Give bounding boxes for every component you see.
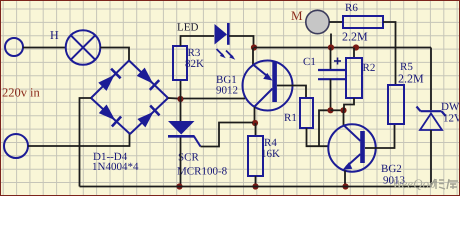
node R4 bottom on rail	[252, 183, 258, 189]
node top rail left junction	[251, 44, 257, 50]
wire BG2 collector lead	[343, 110, 345, 125]
resistor R2	[346, 58, 362, 98]
svg-text:in: in	[30, 86, 40, 100]
wire BG2 emitter down to rail	[344, 171, 346, 187]
svg-text:12V: 12V	[443, 113, 460, 125]
capacitor C1 (polarized)	[318, 58, 345, 80]
resistor R6 (horizontal)	[343, 16, 383, 28]
wire node A branch left and down	[319, 110, 331, 146]
svg-text:1N4004*4: 1N4004*4	[92, 161, 139, 173]
diode D1 (bridge arm)	[98, 69, 120, 91]
wire gate node down to R4	[255, 123, 257, 136]
wire R1 bottom to BG2 base area	[307, 128, 330, 146]
SCR MCR100-8 thyristor symbol	[168, 121, 201, 147]
svg-text:M: M	[291, 8, 303, 23]
node B	[340, 107, 346, 113]
LED arrows	[217, 49, 236, 60]
wire SCR anode	[180, 99, 182, 121]
wire T2 to bridge bottom corner	[28, 134, 130, 146]
wire M to R6	[329, 21, 343, 23]
diode D4 (bridge arm)	[137, 106, 159, 128]
svg-text:WeeQoo: WeeQoo	[392, 176, 436, 191]
wire node A to node B	[331, 109, 344, 111]
watermark WeeQoo weiku	[392, 176, 458, 191]
wire T1 to lamp H	[23, 47, 66, 49]
wire C1 bottom lead	[330, 79, 332, 110]
svg-text:MCR100-8: MCR100-8	[177, 166, 228, 178]
LED diode symbol	[215, 23, 229, 45]
wire SCR cathode down	[180, 138, 182, 187]
lamp H (circle with X)	[66, 30, 101, 65]
wire BG2 base to R5 bottom	[365, 124, 395, 148]
bottom rail wire	[80, 186, 432, 188]
svg-text:2.2M: 2.2M	[342, 30, 368, 44]
svg-text:LED: LED	[177, 22, 198, 34]
svg-text:R6: R6	[345, 2, 358, 14]
wire R6 right down to rail	[383, 22, 396, 48]
node BG2 emitter on rail	[342, 183, 348, 189]
terminal T2 (220v input bottom)	[4, 134, 28, 158]
wire R3 top to LED	[181, 36, 215, 46]
svg-text:2.2M: 2.2M	[398, 72, 424, 86]
wire top rail	[254, 47, 431, 49]
resistor R5	[388, 85, 404, 124]
wire R5 top lead	[395, 48, 397, 86]
wire bridge right corner (DC+) to node	[168, 97, 181, 100]
label 220v in	[2, 86, 40, 100]
wire DC+ node to BG1 circle (base side wire)	[183, 98, 245, 100]
node A	[327, 107, 333, 113]
wire R2 top lead	[353, 48, 355, 59]
wire BG1 collector down to gate node	[254, 107, 256, 123]
transistor BG1 (9012 PNP)	[243, 61, 293, 111]
svg-text:9012: 9012	[216, 85, 238, 97]
diode D3 (bridge arm)	[99, 105, 121, 127]
svg-text:R2: R2	[363, 62, 376, 74]
wire LED cathode to top rail node	[229, 36, 254, 48]
wire M bottom stub	[330, 34, 332, 48]
transistor BG2 (9013 NPN)	[328, 124, 375, 171]
svg-text:220v: 220v	[2, 86, 28, 100]
wire bridge left corner (DC-) down to bottom rail	[80, 98, 92, 187]
wire R2 bottom jog to node B	[344, 98, 354, 110]
svg-text:H: H	[50, 28, 59, 42]
bridge rectifier diamond wires	[91, 61, 168, 135]
node SCR cathode on bottom rail	[176, 183, 182, 189]
wire SCR gate to gate node	[201, 123, 254, 147]
node C1 top junction	[328, 44, 334, 50]
motor M (gray circle)	[306, 10, 329, 33]
svg-text:BG2: BG2	[381, 163, 402, 175]
node DC+ junction	[177, 96, 183, 102]
wire R4 bottom to rail	[255, 176, 257, 187]
terminal T1 (220v input top)	[5, 38, 23, 56]
node gate junction	[252, 120, 258, 126]
resistor R3	[173, 46, 187, 80]
svg-text:R1: R1	[284, 112, 297, 124]
resistor R4	[248, 136, 263, 176]
wire top rail corner down to zener DW	[430, 48, 432, 111]
diode D2 (bridge arm)	[137, 68, 160, 90]
svg-text:82K: 82K	[185, 58, 204, 70]
zener diode DW	[417, 107, 446, 131]
node R2 top junction	[353, 44, 359, 50]
resistor R1	[300, 98, 313, 128]
svg-text:DW: DW	[441, 101, 460, 113]
svg-text:C1: C1	[303, 56, 316, 68]
wire C1 top lead	[330, 48, 332, 70]
svg-text:16K: 16K	[261, 148, 280, 160]
wire DC+ node up to R3	[180, 80, 182, 99]
wire zener bottom to rail	[430, 130, 432, 187]
wire lamp to bridge top corner	[100, 48, 129, 61]
wire BG1 base to R1	[277, 86, 306, 99]
wire BG1 emitter lead	[252, 48, 254, 65]
